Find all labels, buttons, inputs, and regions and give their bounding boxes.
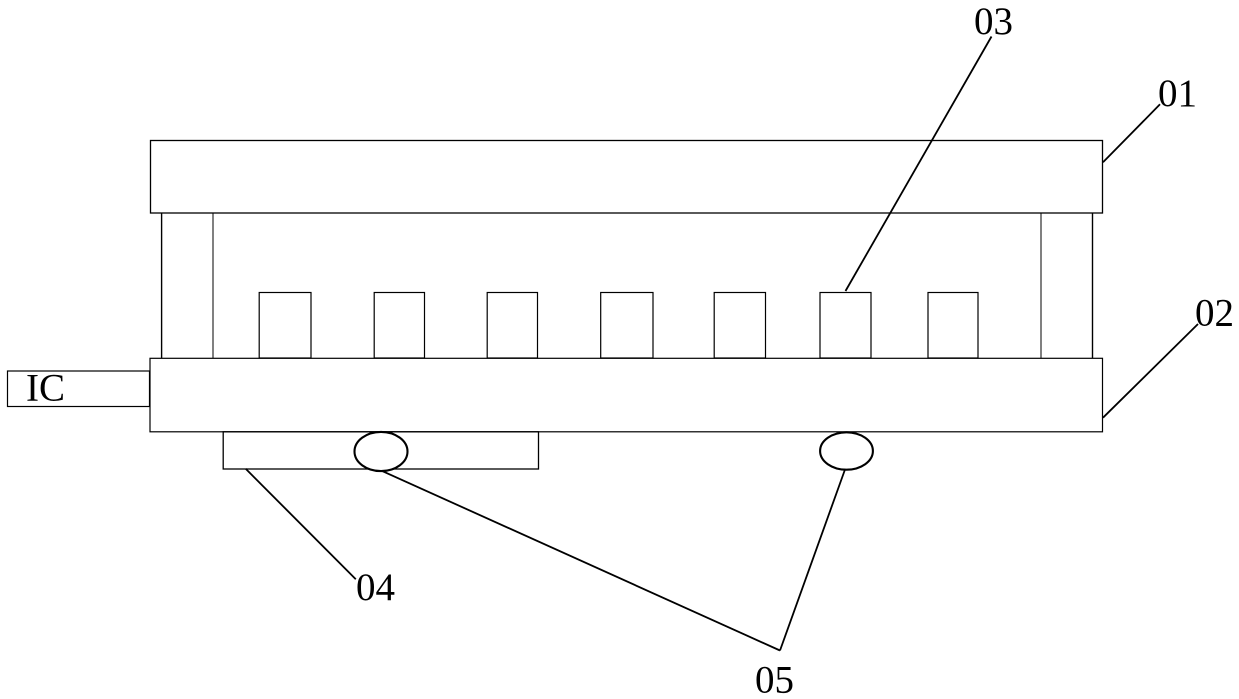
right side wall: [1040, 213, 1042, 358]
spacer bump 1: [259, 293, 311, 359]
bonding ball 05 left (ellipse): [355, 432, 408, 471]
leader line 03: [846, 37, 992, 292]
box 04 under bottom plate: [223, 432, 538, 469]
spacer bump 7: [928, 293, 978, 359]
left side wall: [161, 213, 163, 358]
bottom plate 02: [150, 358, 1103, 432]
spacer bump 4: [601, 293, 653, 359]
svg-text:03: 03: [974, 0, 1013, 43]
left side wall inner line: [212, 213, 214, 358]
leader line 05 left: [382, 471, 780, 651]
spacer bump 6 (pointed by 03): [820, 293, 871, 359]
svg-text:01: 01: [1158, 72, 1197, 115]
right side wall outer line: [1092, 213, 1094, 358]
svg-text:05: 05: [755, 659, 794, 699]
spacer bump 2: [374, 293, 424, 359]
svg-text:04: 04: [356, 566, 395, 609]
leader line 02: [1103, 324, 1198, 418]
leader line 04: [246, 469, 356, 579]
IC box: [8, 371, 150, 407]
svg-text:IC: IC: [26, 367, 65, 410]
leader line 01: [1103, 104, 1160, 162]
leader line 05 right: [780, 470, 845, 651]
bonding ball 05 right (ellipse): [820, 432, 873, 469]
svg-text:02: 02: [1195, 292, 1234, 335]
top plate 01: [151, 141, 1103, 214]
spacer bump 3: [487, 293, 537, 359]
spacer bump 5: [714, 293, 765, 359]
